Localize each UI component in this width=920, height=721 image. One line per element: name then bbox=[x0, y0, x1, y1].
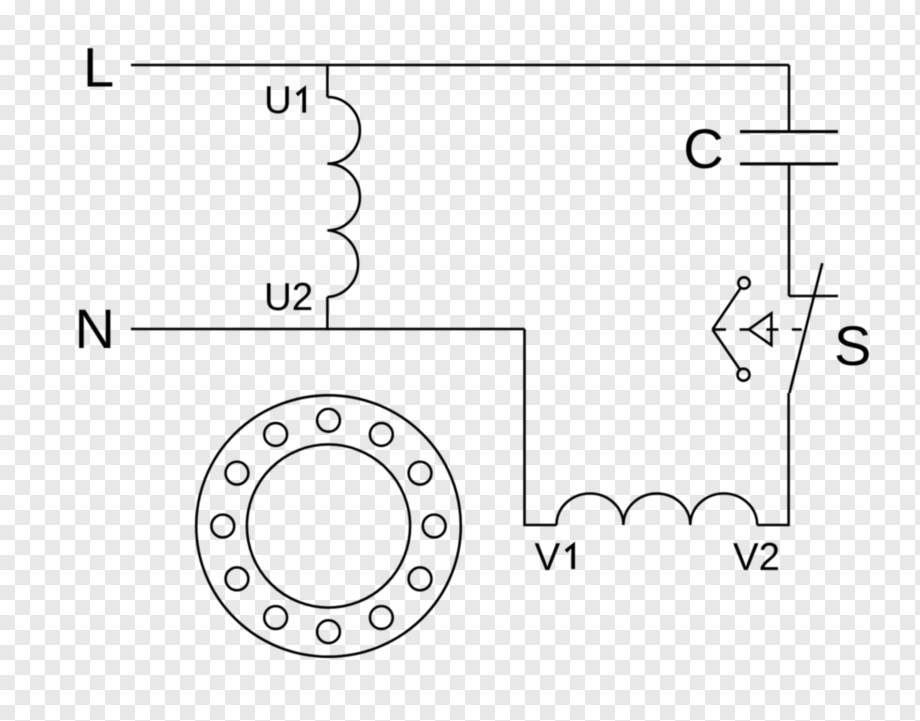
wire V2 to switch bottom bbox=[757, 393, 788, 525]
switch S actuator arm bottom bbox=[713, 330, 741, 370]
motor slot hole 8 o'clock bbox=[226, 567, 249, 590]
svg-text:V2: V2 bbox=[733, 536, 780, 579]
motor slot hole 11 o'clock bbox=[264, 423, 287, 446]
motor slot hole 6 o'clock bbox=[317, 620, 340, 643]
capacitor C top plate bbox=[740, 130, 838, 133]
svg-text:N: N bbox=[75, 297, 115, 360]
svg-text:L: L bbox=[83, 35, 114, 98]
inductor main winding U1-U2 bbox=[327, 97, 360, 297]
switch S linkage dash 1 bbox=[713, 328, 726, 331]
switch S actuator terminal circle top bbox=[738, 277, 749, 288]
svg-text:C: C bbox=[683, 117, 723, 180]
motor slot hole 3 o'clock bbox=[423, 515, 446, 538]
motor slot hole 1 o'clock bbox=[370, 423, 393, 446]
svg-text:S: S bbox=[834, 314, 871, 377]
capacitor C bottom plate bbox=[740, 162, 838, 165]
motor slot hole 12 o'clock bbox=[317, 409, 340, 432]
switch S linkage dash 4 bbox=[792, 328, 802, 331]
wire capacitor bottom lead bbox=[788, 164, 791, 296]
switch S moving blade bbox=[790, 263, 823, 393]
switch S linkage dash 2 bbox=[740, 328, 749, 331]
switch S fixed contact stub bbox=[789, 295, 838, 298]
motor slot hole 10 o'clock bbox=[226, 462, 249, 485]
inductor auxiliary winding V1-V2 bbox=[557, 493, 758, 525]
svg-text:U2: U2 bbox=[264, 276, 313, 319]
switch S linkage dash 3 bbox=[766, 328, 778, 331]
svg-text:U: U bbox=[264, 79, 292, 122]
motor slot hole 9 o'clock bbox=[211, 515, 234, 538]
motor stator outer circle bbox=[196, 395, 461, 656]
motor slot hole 7 o'clock bbox=[264, 606, 287, 629]
motor slot hole 2 o'clock bbox=[409, 462, 432, 485]
wire line L (phase) top horizontal bbox=[131, 64, 789, 67]
wire capacitor top lead bbox=[788, 65, 791, 132]
wire junction L to main winding bbox=[326, 65, 329, 97]
wire line N (neutral) horizontal bbox=[131, 328, 525, 331]
switch S linkage arrowhead triangle bbox=[749, 313, 772, 345]
wire main winding U2 to N bbox=[326, 297, 329, 330]
motor slot hole 4 o'clock bbox=[409, 567, 432, 590]
switch S actuator arm top bbox=[713, 288, 741, 330]
svg-text:V: V bbox=[535, 536, 561, 579]
wire N down to auxiliary winding bbox=[525, 329, 557, 525]
motor rotor inner circle bbox=[247, 444, 410, 607]
switch S actuator terminal circle bottom bbox=[738, 369, 750, 381]
motor slot hole 5 o'clock bbox=[370, 606, 393, 629]
